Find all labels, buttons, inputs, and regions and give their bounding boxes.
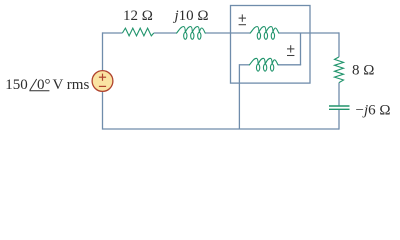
- wire: bottom rail: [103, 128, 340, 130]
- voltage source V1 150 angle 0 V rms: [92, 71, 113, 92]
- coupled inductor L3 (bottom, in box): [249, 58, 278, 65]
- plus-minus dot marking (L2): [239, 14, 246, 24]
- svg-text:8 Ω: 8 Ω: [352, 62, 374, 78]
- coupled-inductor box: [231, 6, 311, 84]
- wire: top rail, L1 into box to L2: [205, 32, 250, 34]
- svg-text:150: 150: [5, 77, 28, 93]
- wire: top rail, R1 to L1: [154, 32, 177, 34]
- wire: L3 right lead: [278, 64, 301, 66]
- phasor angle symbol in source label: [30, 79, 37, 90]
- svg-text:V rms: V rms: [53, 77, 90, 93]
- plus-minus dot marking (L3): [287, 45, 294, 55]
- wire: top rail, source corner to R1: [103, 32, 123, 34]
- wire: right branch, top rail down to R2: [338, 32, 340, 57]
- wire: L3 left lead drop to bottom rail: [238, 64, 240, 129]
- resistor R1 12 ohm: [122, 28, 153, 36]
- wire: right branch, R2 to C1: [338, 83, 340, 106]
- svg-text:−j6 Ω: −j6 Ω: [356, 102, 391, 118]
- resistor R2 8 ohm: [335, 57, 344, 83]
- svg-text:j10 Ω: j10 Ω: [172, 8, 208, 24]
- wire: left branch, corner down to source +: [102, 32, 104, 70]
- capacitor C1 -j6 ohm: [329, 105, 350, 107]
- wire: right branch, C1 to bottom rail: [338, 110, 340, 130]
- svg-text:12 Ω: 12 Ω: [123, 8, 153, 24]
- wire: riser, top rail junction down to L3 right lead: [300, 33, 302, 65]
- wire: top rail, L2 out of box to right branch: [279, 32, 339, 34]
- wire: left branch, source - down to bottom rail: [102, 91, 104, 129]
- wire: L3 left lead: [239, 64, 249, 66]
- inductor L1 j10 ohm: [177, 27, 206, 34]
- coupled inductor L2 (top, in box): [250, 27, 279, 34]
